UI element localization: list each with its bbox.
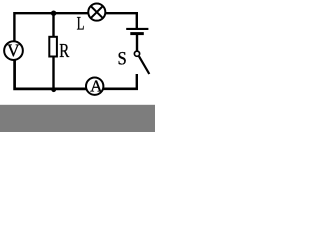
wire top horizontal right (lamp to top-right corner) bbox=[106, 13, 137, 28]
svg-text:V: V bbox=[7, 41, 20, 61]
voltmeter V bbox=[4, 41, 23, 60]
svg-text:A: A bbox=[90, 76, 103, 95]
battery cell: short negative plate bbox=[130, 32, 144, 35]
junction node at top of resistor branch bbox=[51, 11, 56, 16]
switch S: pivot circle bbox=[134, 51, 139, 56]
battery cell: long positive plate bbox=[126, 28, 148, 30]
svg-text:L: L bbox=[77, 15, 85, 35]
wire bottom horizontal left (bottom-left corner to ammeter) bbox=[15, 60, 86, 89]
wire resistor branch upper bbox=[52, 13, 54, 37]
svg-text:S: S bbox=[118, 50, 127, 70]
resistor R bbox=[49, 37, 57, 57]
switch S: blade bbox=[139, 56, 149, 74]
gray footer bar bbox=[0, 105, 155, 132]
wire battery to switch pivot bbox=[136, 35, 138, 51]
junction node at bottom of resistor branch bbox=[51, 87, 56, 92]
wire bottom horizontal right (ammeter to bottom-right corner) bbox=[103, 88, 138, 91]
wire right terminal vertical (bottom-right corner up to switch) bbox=[137, 74, 138, 89]
ammeter A bbox=[86, 78, 103, 95]
svg-text:R: R bbox=[59, 40, 69, 62]
wire resistor branch lower bbox=[52, 57, 54, 91]
lamp L (circle with inscribed X) bbox=[88, 4, 105, 21]
wire top horizontal left (top-left corner to lamp) bbox=[14, 13, 88, 42]
